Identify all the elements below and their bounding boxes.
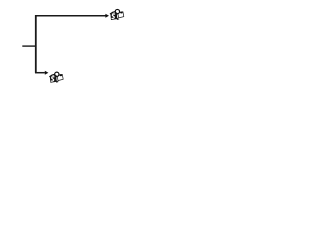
wire: top horizontal branch — [35, 15, 106, 17]
wire: middle left stub — [22, 45, 36, 47]
arrowhead on bottom branch — [45, 71, 49, 75]
background — [0, 0, 150, 93]
node icon: top clipart — [110, 9, 124, 20]
wire: bottom horizontal branch — [35, 72, 45, 74]
arrowhead on top branch — [105, 14, 109, 18]
wire: vertical bus line — [35, 15, 37, 73]
node icon: bottom clipart — [50, 72, 64, 83]
